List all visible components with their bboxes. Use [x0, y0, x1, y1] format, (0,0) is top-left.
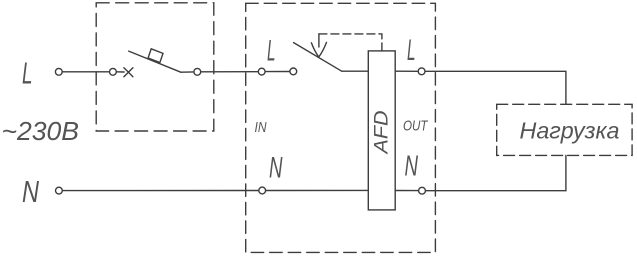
- wire L supply: [62, 71, 109, 73]
- wire L to load: [426, 71, 566, 104]
- actuator arrowhead: [311, 42, 326, 57]
- svg-text:Нагрузка: Нагрузка: [520, 118, 620, 144]
- AFD block: [368, 51, 395, 210]
- terminal breaker input: [110, 68, 117, 75]
- breaker fixed contact X: [124, 68, 133, 77]
- breaker release square: [148, 49, 163, 63]
- wire AFD out L: [395, 70, 418, 72]
- terminal AFD module N out: [419, 187, 426, 194]
- svg-text:L: L: [407, 34, 416, 67]
- terminal AFD module L out: [418, 68, 425, 75]
- svg-text:N: N: [405, 151, 419, 183]
- svg-text:AFD: AFD: [372, 110, 393, 154]
- terminal N supply: [56, 187, 63, 194]
- terminal relay contact L: [290, 68, 297, 75]
- wire to breaker contact: [116, 71, 124, 73]
- wire N to AFD block: [266, 189, 369, 191]
- wire between input terminals: [265, 71, 290, 73]
- terminal AFD module N in: [259, 187, 266, 194]
- svg-text:IN: IN: [255, 119, 267, 136]
- wire blade to terminal: [181, 71, 194, 73]
- terminal breaker output: [194, 68, 201, 75]
- svg-text:~230В: ~230В: [2, 116, 80, 146]
- wire N to load: [426, 155, 566, 190]
- control dashed link: [319, 34, 382, 51]
- wire N supply: [62, 190, 258, 192]
- svg-text:OUT: OUT: [403, 117, 429, 134]
- relay blade: [294, 43, 342, 72]
- terminal AFD module L in: [258, 68, 265, 75]
- breaker blade: [129, 51, 181, 72]
- wire breaker to AFD box: [201, 71, 258, 73]
- svg-text:N: N: [22, 174, 39, 209]
- load dashed box: [497, 104, 632, 155]
- svg-text:L: L: [267, 34, 276, 67]
- terminal L supply: [55, 68, 62, 75]
- svg-text:L: L: [22, 55, 33, 90]
- breaker dashed box: [96, 3, 214, 131]
- svg-text:N: N: [269, 151, 283, 184]
- AFD module dashed box: [246, 3, 436, 252]
- actuator arrow stem: [318, 34, 320, 47]
- wire relay to AFD block: [342, 70, 369, 72]
- wire AFD out N: [395, 190, 418, 192]
